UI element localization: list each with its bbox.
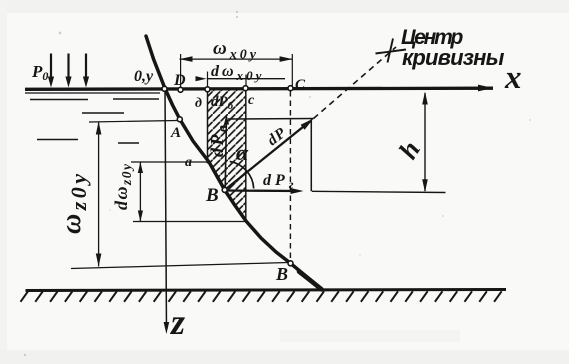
svg-text:A: A bbox=[170, 125, 181, 141]
svg-text:α: α bbox=[236, 140, 249, 165]
svg-text:кривизны: кривизны bbox=[402, 45, 505, 70]
extension line above D bbox=[180, 54, 182, 88]
strip left edge d-a bbox=[207, 91, 209, 164]
node A bbox=[177, 117, 182, 122]
P0 arrow 1 bbox=[50, 54, 52, 80]
centre of curvature cross bbox=[376, 50, 407, 54]
rectangle top edge bbox=[228, 118, 314, 121]
free surface water marks bbox=[25, 92, 160, 94]
strip right edge c-tick bbox=[245, 90, 247, 221]
node D bbox=[178, 87, 183, 92]
dimension line omega_xOy bbox=[180, 58, 293, 60]
reference line at level of element for h bbox=[312, 191, 446, 192]
extension line from A to left bbox=[89, 121, 178, 123]
svg-text:z: z bbox=[169, 302, 185, 342]
rectangle right edge bbox=[310, 119, 312, 191]
extension line above d bbox=[207, 72, 209, 89]
svg-text:a: a bbox=[185, 155, 192, 170]
extension line above c bbox=[245, 75, 247, 89]
extension line from a to left bbox=[131, 161, 209, 163]
svg-text:д: д bbox=[195, 96, 202, 111]
node 0,y origin bbox=[162, 86, 167, 91]
node c bbox=[243, 86, 248, 91]
dP_v vertical component arrow bbox=[225, 117, 226, 188]
extension line at B level bbox=[71, 263, 288, 269]
svg-text:В: В bbox=[205, 185, 219, 206]
dimension line d-omega_zOy bbox=[139, 162, 141, 222]
ground line bbox=[26, 290, 507, 291]
svg-text:D: D bbox=[173, 72, 186, 89]
x-axis arrowhead bbox=[478, 85, 493, 92]
node d bbox=[205, 87, 210, 92]
dimension line omega_zOy bbox=[98, 122, 100, 267]
angle arc alpha bbox=[230, 161, 254, 188]
node B bbox=[288, 261, 293, 266]
x-axis / free surface line bbox=[25, 88, 493, 89]
curved surface AB bbox=[146, 36, 322, 290]
svg-text:x: x bbox=[504, 60, 522, 96]
scan speckles bbox=[24, 354, 26, 356]
node C bbox=[288, 86, 293, 91]
dashed continuation of dP to centre of curvature bbox=[314, 47, 397, 119]
P0 arrow 2 bbox=[67, 54, 69, 80]
extension line at tick level bbox=[133, 221, 246, 223]
P0 arrow 3 bbox=[85, 54, 87, 80]
svg-text:B: B bbox=[275, 264, 288, 284]
thick lower end of curve at bottom bbox=[299, 272, 322, 290]
dP_g horizontal component arrow bbox=[225, 189, 298, 192]
svg-text:C: C bbox=[295, 77, 306, 93]
dimension line d-omega_xOy bbox=[207, 78, 285, 80]
ground hatching bbox=[21, 291, 502, 302]
svg-text:0,y: 0,y bbox=[134, 68, 154, 85]
dashed vertical line from C down to B bbox=[289, 91, 291, 261]
h dimension line bbox=[424, 93, 426, 191]
z-axis bbox=[165, 90, 167, 330]
dP resultant arrow bbox=[225, 121, 310, 190]
node v (element) bbox=[222, 187, 227, 192]
svg-text:c: c bbox=[248, 93, 255, 108]
extension line above C bbox=[291, 54, 293, 88]
